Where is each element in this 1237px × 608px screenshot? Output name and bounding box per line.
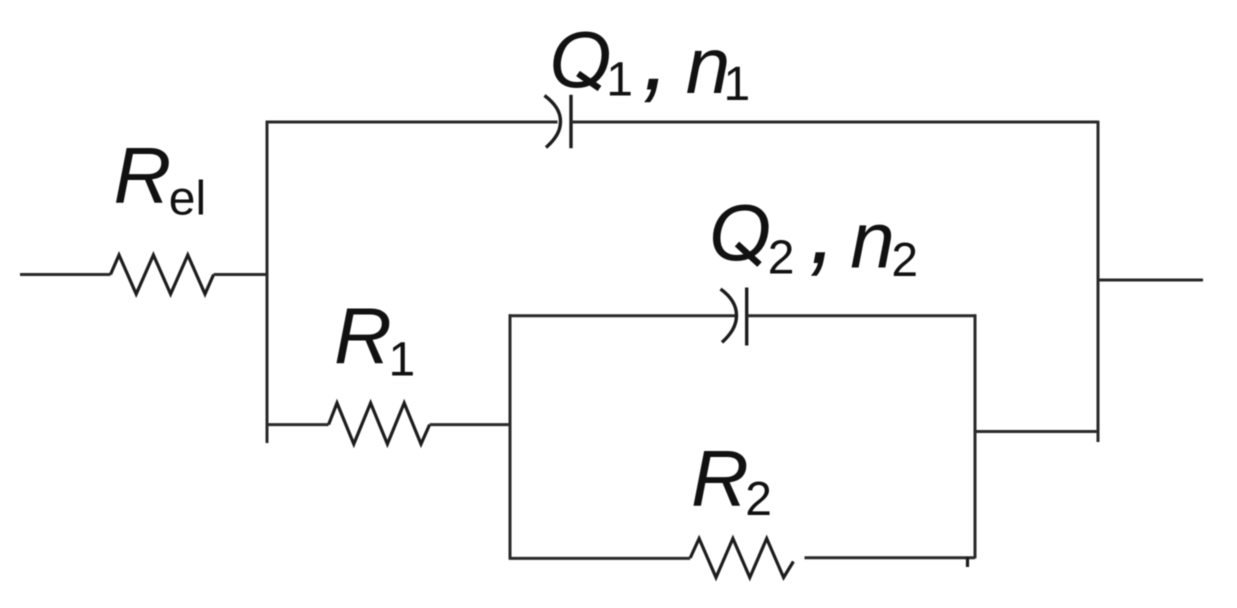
wire inner bottom branch left — [509, 557, 691, 560]
svg-text:1: 1 — [606, 53, 633, 106]
wire top branch right — [571, 121, 1098, 124]
svg-text:el: el — [169, 173, 206, 226]
wire left vertical — [266, 121, 269, 443]
wire R_el to node — [214, 273, 267, 276]
CPE Q1 plate — [569, 95, 572, 148]
svg-text:2: 2 — [768, 232, 795, 285]
wire inner right vertical — [974, 314, 977, 558]
svg-text:n: n — [850, 195, 895, 284]
svg-text:R: R — [114, 131, 172, 220]
CPE Q2 plate — [745, 288, 748, 346]
wire right vertical — [1097, 121, 1100, 442]
svg-text:,: , — [809, 173, 837, 285]
wire node to R1 — [267, 423, 329, 426]
wire R1 to inner box — [430, 423, 510, 426]
svg-text:O: O — [709, 188, 771, 277]
resistor R1 — [329, 403, 430, 444]
wire input left — [20, 273, 111, 276]
wire inner top branch left — [509, 314, 735, 317]
wire output right — [1098, 279, 1203, 282]
resistor R_el — [111, 255, 214, 294]
svg-text:1: 1 — [724, 58, 751, 111]
svg-text:R: R — [691, 434, 749, 523]
svg-text:,: , — [642, 0, 670, 111]
svg-text:1: 1 — [389, 333, 416, 386]
resistor R2 — [690, 539, 793, 578]
CPE Q1 arc — [545, 96, 561, 148]
wire inner top branch right — [747, 314, 975, 317]
svg-text:2: 2 — [745, 473, 772, 526]
junction tick inner bottom right — [966, 557, 969, 567]
CPE Q2 arc — [721, 289, 737, 342]
wire top branch left — [266, 121, 558, 124]
wire inner box to right vertical — [975, 430, 1098, 433]
svg-text:R: R — [334, 292, 392, 381]
wire inner bottom branch right — [805, 556, 976, 559]
svg-text:2: 2 — [891, 234, 918, 287]
svg-text:O: O — [549, 15, 611, 104]
wire inner left vertical — [509, 314, 512, 558]
